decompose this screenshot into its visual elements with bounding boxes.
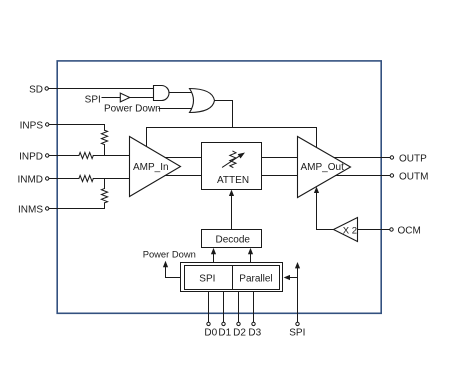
svg-text:INMS: INMS (18, 204, 43, 215)
wire Power Down to OR (159, 108, 193, 110)
svg-text:Power Down: Power Down (143, 249, 196, 260)
or-gate U3 (190, 89, 215, 113)
wire INPS (49, 124, 104, 126)
wire SPI control (297, 267, 299, 323)
wire AND output to OR (169, 92, 192, 94)
svg-text:ATTEN: ATTEN (217, 175, 249, 186)
svg-text:Decode: Decode (216, 234, 251, 245)
variable attenuator symbol (230, 151, 236, 167)
svg-text:AMP_Out: AMP_Out (301, 162, 345, 173)
resistor R4 (vertical) (101, 189, 107, 203)
wire power-down rail (147, 127, 317, 129)
wire R1 to INPD line (104, 145, 106, 156)
terminal INMD (46, 177, 49, 180)
svg-text:D0: D0 (204, 327, 217, 338)
svg-text:X 2: X 2 (343, 225, 357, 236)
svg-text:INPD: INPD (19, 151, 43, 162)
svg-text:OUTM: OUTM (399, 171, 428, 182)
svg-text:D2: D2 (233, 327, 246, 338)
svg-text:SPI: SPI (85, 94, 101, 105)
wire R2 to AMP_In (93, 155, 129, 157)
svg-text:D3: D3 (248, 327, 261, 338)
wire INMD (49, 178, 79, 180)
wire OCM (358, 229, 390, 231)
terminal OCM (390, 228, 393, 231)
svg-text:INPS: INPS (20, 120, 44, 131)
terminal D3 (252, 322, 255, 325)
buffer U1 (120, 93, 129, 102)
svg-text:D1: D1 (218, 327, 231, 338)
interface box (outer) (181, 263, 283, 292)
wire OR output (215, 101, 233, 128)
arrowhead into AMP_Out (314, 187, 319, 193)
op-amp AMP_Out (298, 137, 351, 198)
and-gate U2 (154, 86, 170, 101)
decode box (202, 230, 262, 248)
wire SD line (49, 88, 154, 90)
wire AMP_In to ATTEN upper (165, 157, 202, 159)
wire D2 (238, 292, 240, 323)
interface box (inner) (185, 266, 280, 290)
svg-text:INMD: INMD (17, 174, 43, 185)
terminal INPS (46, 123, 49, 126)
svg-text:OCM: OCM (398, 225, 421, 236)
wire INMS (49, 208, 104, 210)
svg-text:Power Down: Power Down (104, 104, 161, 115)
arrowhead into ATTEN (229, 190, 234, 196)
terminal INPD (46, 154, 49, 157)
wire ATTEN to AMP_Out upper (262, 157, 298, 159)
wire INPD (49, 155, 79, 157)
svg-text:SPI: SPI (289, 327, 305, 338)
wire R4 to INMD line (104, 179, 106, 189)
resistor R1 (vertical) (101, 130, 107, 144)
wire R3 to AMP_In (93, 178, 129, 180)
wire SPI branch into box (288, 277, 297, 279)
terminal D0 (207, 322, 210, 325)
arrowhead power down (163, 261, 168, 267)
amplifier X2 (334, 218, 358, 242)
resistor R3 (horizontal) (79, 175, 93, 181)
terminal INMS (46, 207, 49, 210)
svg-text:SD: SD (29, 84, 43, 95)
wire INPS down (104, 125, 106, 131)
wire D3 (253, 292, 255, 323)
arrowhead SPI into box (284, 275, 290, 280)
terminal D2 (237, 322, 240, 325)
wire OUTM (336, 175, 390, 177)
outer boundary box (57, 61, 381, 313)
terminal OUTM (390, 174, 393, 177)
terminal SD (45, 87, 48, 90)
wire box to Decode right (250, 252, 252, 263)
resistor R2 (horizontal) (79, 152, 93, 158)
svg-text:OUTP: OUTP (399, 153, 427, 164)
arrowhead into Decode left (211, 248, 216, 254)
wire D1 (223, 292, 225, 323)
op-amp AMP_In (130, 137, 181, 197)
arrowhead into Decode right (248, 248, 253, 254)
wire SPI to buffer (102, 97, 120, 99)
terminal SPI (296, 322, 299, 325)
wire buffer to AND (130, 97, 154, 99)
terminal D1 (222, 322, 225, 325)
wire box to Decode left (213, 252, 215, 263)
wire rail drop to AMP_In (146, 128, 148, 148)
wire AMP_In to ATTEN lower (165, 175, 202, 177)
svg-text:SPI: SPI (199, 274, 215, 285)
wire power down out (166, 266, 181, 278)
wire ATTEN to AMP_Out lower (262, 175, 298, 177)
svg-text:Parallel: Parallel (239, 274, 272, 285)
wire X2 output to AMP_Out (317, 192, 334, 230)
arrowhead SPI up (295, 262, 300, 268)
divider SPI/Parallel (232, 266, 234, 290)
wire Decode to ATTEN (231, 194, 233, 230)
terminal OUTP (390, 156, 393, 159)
wire OUTP (334, 157, 390, 159)
wire D0 (208, 292, 210, 323)
svg-text:AMP_In: AMP_In (133, 162, 169, 173)
wire rail drop to AMP_Out (316, 128, 318, 148)
wire INMS up (104, 203, 106, 209)
attenuator box ATTEN (202, 143, 262, 190)
